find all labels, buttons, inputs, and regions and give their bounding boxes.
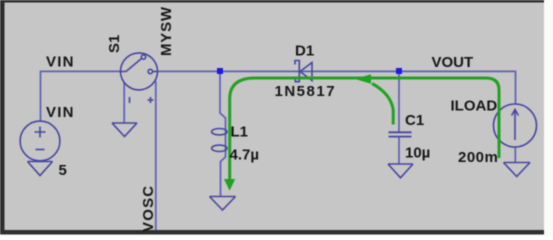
wire L1 branch node to ground (220, 72, 226, 197)
ground below VIN (28, 162, 53, 176)
diode D1 triangle (300, 63, 312, 81)
svg-text:4.7µ: 4.7µ (230, 147, 260, 164)
ground below L1 (210, 197, 236, 211)
svg-text:L1: L1 (231, 124, 249, 141)
svg-text:D1: D1 (295, 43, 314, 60)
switch S1 minus pin mark (129, 97, 131, 103)
wire C1 top (398, 72, 400, 133)
node junction at VOUT/C1 (396, 68, 402, 74)
wire C1 bottom (398, 137, 400, 165)
ground below switch (112, 123, 137, 137)
svg-text:S1: S1 (106, 35, 123, 53)
wire top rail switch to VOUT to ILOAD (158, 71, 516, 104)
current source ILOAD circle (494, 104, 537, 147)
switch S1 lever tip contact (141, 55, 145, 59)
diode D1 schottky cathode bar (295, 61, 299, 82)
svg-text:C1: C1 (405, 112, 424, 129)
wire switch left stub to ground (123, 83, 125, 124)
wire VIN net: left corner (41, 71, 122, 121)
switch S1 body circle (121, 53, 158, 90)
svg-text:ILOAD: ILOAD (451, 98, 498, 115)
svg-text:MYSW: MYSW (158, 6, 175, 56)
switch S1 right contact (148, 69, 152, 73)
ILOAD arrow (512, 110, 519, 141)
svg-text:VOSC: VOSC (140, 185, 157, 232)
svg-text:5: 5 (59, 162, 67, 179)
voltage source V1 circle (VIN) (20, 121, 60, 161)
green branch to C1 (372, 84, 393, 125)
svg-text:VIN: VIN (46, 104, 75, 121)
green arrowhead left on top path (355, 74, 371, 83)
green current loop main path (230, 78, 499, 180)
capacitor C1 plates (389, 132, 412, 136)
node junction at switch/L1/diode (217, 68, 223, 74)
ground below C1 (388, 164, 413, 178)
green arrowhead down at L1 ground (224, 179, 235, 191)
VIN minus sign (36, 149, 45, 151)
switch S1 lever (121, 59, 142, 72)
svg-text:200m: 200m (458, 149, 498, 166)
VIN plus sign (35, 127, 46, 138)
svg-text:1N5817: 1N5817 (275, 83, 337, 100)
svg-text:10µ: 10µ (405, 145, 430, 162)
wire VOSC: switch right stub down (155, 81, 157, 230)
switch S1 plus pin mark (148, 97, 154, 103)
switch S1 right contact lead (153, 71, 159, 73)
svg-text:VOUT: VOUT (432, 54, 474, 71)
inductor L1 coil bump lower (212, 145, 227, 151)
svg-text:VIN: VIN (46, 54, 75, 71)
inductor L1 coil bump upper (212, 129, 227, 135)
wire ILOAD bottom stub (514, 147, 516, 163)
ground below ILOAD (504, 163, 531, 177)
